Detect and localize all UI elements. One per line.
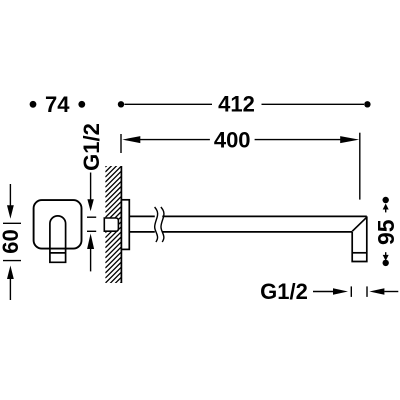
svg-text:G1/2: G1/2: [79, 123, 104, 171]
svg-text:74: 74: [45, 92, 70, 117]
svg-text:G1/2: G1/2: [260, 279, 308, 304]
svg-text:60: 60: [0, 229, 23, 253]
svg-text:400: 400: [214, 128, 251, 153]
svg-text:95: 95: [373, 219, 399, 245]
svg-text:412: 412: [218, 92, 255, 117]
